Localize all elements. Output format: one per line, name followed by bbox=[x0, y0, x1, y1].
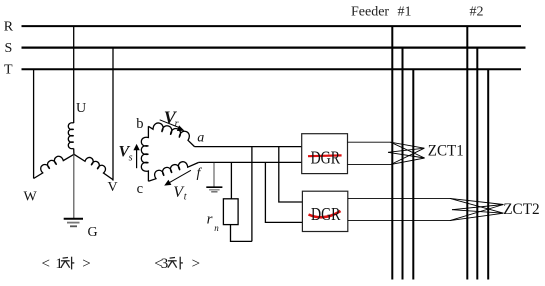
svg-text:ZCT1: ZCT1 bbox=[428, 142, 464, 159]
svg-text:s: s bbox=[129, 152, 133, 163]
svg-text:r: r bbox=[207, 212, 213, 228]
svg-text:b: b bbox=[136, 116, 143, 132]
svg-text:R: R bbox=[4, 20, 14, 35]
svg-text:t: t bbox=[184, 192, 187, 203]
svg-text:U: U bbox=[76, 101, 86, 116]
svg-text:DGR: DGR bbox=[311, 147, 341, 167]
svg-text:S: S bbox=[5, 41, 13, 56]
svg-text:>: > bbox=[82, 256, 90, 272]
svg-text:3: 3 bbox=[161, 256, 169, 272]
svg-text:>: > bbox=[192, 256, 200, 272]
svg-text:Feeder: Feeder bbox=[351, 5, 389, 20]
svg-text:DGR: DGR bbox=[311, 204, 341, 224]
svg-text:ZCT2: ZCT2 bbox=[503, 201, 540, 218]
svg-text:#2: #2 bbox=[470, 4, 484, 19]
svg-text:n: n bbox=[214, 223, 219, 233]
svg-text:r: r bbox=[175, 119, 179, 130]
svg-text:c: c bbox=[137, 181, 143, 197]
svg-text:#1: #1 bbox=[398, 5, 412, 20]
svg-text:W: W bbox=[24, 189, 38, 204]
svg-text:V: V bbox=[108, 180, 118, 195]
svg-text:1: 1 bbox=[55, 256, 63, 272]
svg-text:T: T bbox=[4, 62, 13, 77]
svg-text:a: a bbox=[197, 130, 204, 145]
svg-text:G: G bbox=[88, 225, 98, 240]
svg-text:<: < bbox=[42, 256, 50, 272]
